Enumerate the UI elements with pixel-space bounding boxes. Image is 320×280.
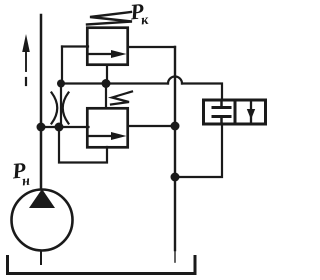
svg-text:н: н — [21, 174, 31, 190]
svg-text:к: к — [140, 13, 150, 29]
